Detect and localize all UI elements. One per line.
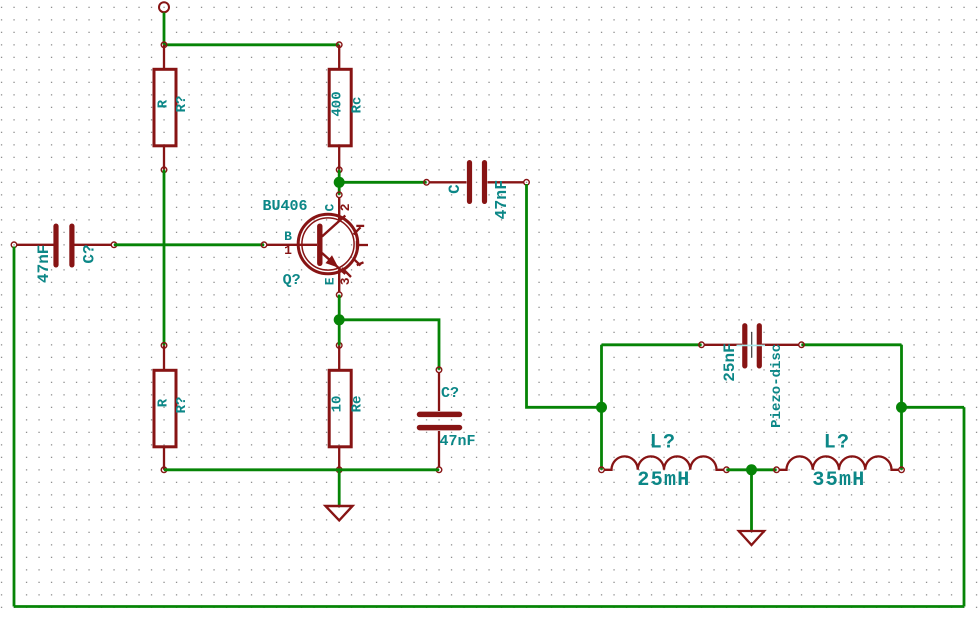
svg-text:47nF: 47nF [35, 245, 53, 283]
svg-text:25mH: 25mH [637, 469, 690, 492]
tick marks on circle right side [354, 227, 361, 234]
wire R1 to R3 vertical [163, 170, 166, 346]
capacitor C3 (C? 47nF) [420, 367, 460, 473]
svg-text:B: B [284, 229, 292, 244]
junction tank center [746, 464, 757, 475]
svg-text:C: C [323, 204, 338, 212]
resistor R3 (R? / R) [154, 343, 176, 473]
cursor crosshair [751, 332, 753, 358]
wire left tank vertical [600, 345, 603, 470]
svg-text:C: C [446, 184, 464, 194]
svg-text:1: 1 [284, 243, 292, 258]
svg-text:Q?: Q? [283, 272, 301, 289]
wire emitter down [338, 295, 341, 320]
wire emitter to C3 top [339, 320, 439, 370]
wire base [114, 243, 264, 246]
wire emitter resistor junction [338, 320, 341, 346]
capacitor C2 (C 47nF) [424, 163, 530, 202]
svg-text:C?: C? [441, 385, 459, 402]
wire bottom feedback horizontal [14, 605, 964, 608]
inductor L1 (L? 25mH) [599, 456, 730, 472]
junction right tank [896, 402, 907, 413]
junction emitter node [334, 314, 345, 325]
wire collector node vertical [338, 170, 341, 195]
transistor Q1 BU406 [261, 192, 368, 298]
svg-text:47nF: 47nF [492, 180, 511, 220]
svg-text:400: 400 [330, 91, 346, 116]
wire VCC vertical [163, 13, 166, 45]
svg-text:Rc: Rc [350, 97, 366, 114]
svg-text:C?: C? [81, 244, 99, 263]
svg-text:R?: R? [174, 397, 190, 414]
wire collector to C2 [339, 181, 426, 184]
wire right feedback vertical [963, 407, 966, 606]
svg-text:R: R [156, 398, 172, 407]
capacitor C4 (Piezo-disc 25nF) [699, 326, 805, 366]
svg-text:Re: Re [350, 396, 366, 413]
wire to GND2 [750, 470, 753, 531]
svg-text:BU406: BU406 [262, 198, 307, 215]
capacitor C1 (C? 47nF) [11, 226, 117, 265]
wire C2 right down [527, 184, 602, 407]
inductor L2 (L? 35mH) [774, 456, 905, 472]
junction left tank [596, 402, 607, 413]
wire piezo top right [802, 343, 902, 346]
resistor R2 (Rc 400) [329, 42, 351, 173]
resistor R4 (Re 10) [329, 343, 351, 473]
svg-text:L?: L? [650, 432, 677, 455]
svg-text:R: R [156, 99, 172, 108]
svg-text:L?: L? [824, 432, 851, 455]
svg-text:25nF: 25nF [721, 343, 739, 381]
wire left feedback vertical [13, 247, 16, 607]
svg-text:10: 10 [330, 396, 346, 413]
ground GND1 [326, 506, 353, 520]
wire right feedback to junction [902, 406, 965, 409]
svg-text:E: E [323, 277, 338, 285]
svg-text:47nF: 47nF [439, 433, 475, 450]
wire VCC horizontal top [164, 43, 339, 46]
svg-text:35mH: 35mH [812, 469, 865, 492]
junction collector node [334, 177, 345, 188]
wire to GND1 [338, 470, 341, 506]
wire right tank vertical [900, 345, 903, 470]
wire bottom emitter rail [164, 468, 439, 471]
resistor R1 (R? / R) [154, 42, 176, 173]
svg-text:3: 3 [338, 277, 353, 285]
ground GND2 [739, 531, 764, 545]
svg-text:R?: R? [174, 96, 190, 113]
node VCC terminal circle [159, 2, 169, 12]
wire piezo top left [602, 343, 702, 346]
svg-text:2: 2 [338, 203, 353, 211]
wire between inductors [727, 468, 777, 471]
svg-text:Piezo-disc: Piezo-disc [769, 344, 785, 428]
